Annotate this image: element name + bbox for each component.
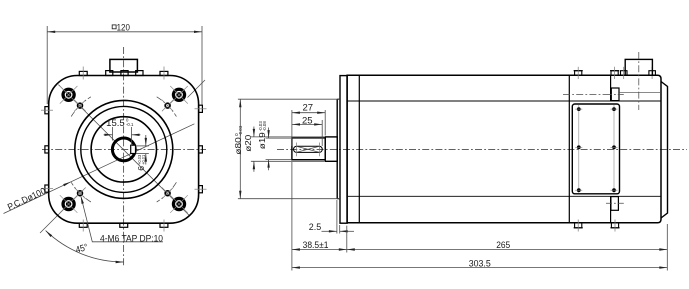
rear connector centerline horizontal <box>563 94 606 96</box>
plate screws <box>577 107 616 192</box>
svg-text:ø19: ø19 <box>257 132 267 149</box>
connector block on top <box>110 59 137 72</box>
keyway slot cross lines <box>297 146 319 152</box>
svg-text:-0.1: -0.1 <box>126 122 134 127</box>
svg-text:120: 120 <box>117 23 130 33</box>
4-M6 leader and label <box>81 197 163 242</box>
square symbol + 120 text <box>112 25 116 29</box>
shaft body <box>292 138 325 160</box>
left tab upper <box>45 107 49 114</box>
svg-text:2.5: 2.5 <box>309 222 321 232</box>
front endbell vertical line <box>358 75 360 223</box>
svg-text:38.5±1: 38.5±1 <box>303 240 329 250</box>
svg-text:27: 27 <box>303 102 314 112</box>
bottom tab center <box>120 223 128 227</box>
rear connector block <box>625 59 652 75</box>
dimension 2.5 <box>322 200 355 234</box>
svg-text:4-M6 TAP DP:10: 4-M6 TAP DP:10 <box>100 234 163 244</box>
horizontal centerline <box>42 148 206 150</box>
body inner bottom line <box>347 195 661 197</box>
svg-text:265: 265 <box>496 240 510 250</box>
plug tick bottom <box>606 202 624 204</box>
dimension 303.5 <box>292 267 667 269</box>
svg-text:-0.08: -0.08 <box>262 121 267 132</box>
M6 hole tick marks <box>74 100 173 199</box>
45 degree arc dimension <box>46 231 124 262</box>
PCD leader arrowhead <box>63 181 71 187</box>
dimension 265 <box>347 224 668 271</box>
dimension 38.5 <box>292 162 347 271</box>
right tab lower <box>199 186 203 193</box>
top screw ticks <box>578 67 652 79</box>
bottom screw ticks <box>578 220 615 232</box>
bottom tab right <box>160 223 168 227</box>
svg-text:25: 25 <box>302 115 313 125</box>
radial leader line for PCD <box>4 124 195 214</box>
rear short verticals at x=610.6 <box>610 75 612 101</box>
svg-text:-0.03: -0.03 <box>238 125 243 136</box>
arc arrow bottom <box>116 261 124 263</box>
plate screw column lines <box>578 105 580 193</box>
svg-text:ø20: ø20 <box>243 135 253 152</box>
rear section boundary <box>568 75 570 223</box>
dimension dia80 <box>238 99 340 199</box>
svg-text:15.5: 15.5 <box>106 118 125 128</box>
motor body outline <box>347 75 661 223</box>
side cover plate <box>572 104 619 194</box>
dimension 25 <box>292 120 322 146</box>
vertical centerline <box>123 47 125 267</box>
flange outline (square with rounded corners) <box>49 76 199 224</box>
pilot boss front face <box>336 99 338 199</box>
dimension 27 <box>292 110 325 146</box>
top tab right <box>160 71 168 75</box>
svg-text:ø80: ø80 <box>233 137 243 155</box>
dimension dia19 <box>266 128 291 171</box>
left tab middle <box>45 146 49 153</box>
connector feet <box>106 71 113 76</box>
plug tick top <box>606 94 624 96</box>
keyway slot (side) <box>294 146 323 152</box>
dimension dia20 <box>251 127 324 172</box>
third circle (pilot boss) <box>91 117 156 182</box>
tab tick lines <box>41 67 207 232</box>
diagonal centerline BL-TR <box>188 80 206 98</box>
shaft step (dia20 section) <box>325 137 337 161</box>
top screws on body <box>574 71 656 76</box>
dimension 15.5 <box>104 127 141 146</box>
second circle <box>81 106 167 192</box>
svg-text:303.5: 303.5 <box>469 258 491 268</box>
body inner top line <box>347 100 661 102</box>
rear thin line top right <box>619 91 661 93</box>
keyway slot on bore <box>131 145 136 153</box>
left tab lower <box>45 185 49 192</box>
dimension square-120 <box>47 26 202 105</box>
right tab upper <box>199 105 203 112</box>
rear end cap <box>661 82 668 219</box>
svg-text:+0.01: +0.01 <box>141 154 146 165</box>
shaft ring (thick) <box>112 138 135 161</box>
svg-text:6: 6 <box>136 166 146 171</box>
arc arrow upper-left <box>45 230 52 237</box>
right tab middle <box>199 146 203 153</box>
diagonal centerline TL-BR <box>58 85 189 216</box>
top plug <box>611 88 619 101</box>
horizontal centerline of shaft <box>277 148 687 150</box>
45deg diagonal segment bottom-left <box>40 205 68 233</box>
top tab left <box>79 71 87 75</box>
outer circle (body) <box>75 100 173 198</box>
bottom plug <box>611 197 619 211</box>
PCD 100 dash-dot circle <box>71 97 176 202</box>
plate screw cross ticks <box>575 109 617 190</box>
bottom tab left <box>79 223 87 227</box>
corner screws (socket head) <box>60 86 188 213</box>
bottom screws on body <box>574 223 620 228</box>
rear connector centerline vertical <box>638 52 640 110</box>
keyway width dimension 6 <box>136 135 149 165</box>
boss top/bottom edges <box>337 98 340 100</box>
M6 tap holes on PCD <box>78 103 170 195</box>
flange plate <box>340 76 347 224</box>
slot arc-center ticks <box>296 143 298 157</box>
